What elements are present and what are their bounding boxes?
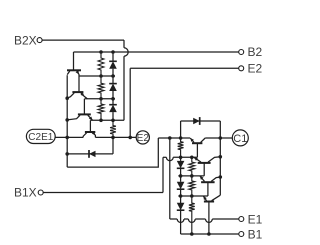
diode D4 [177,157,185,176]
wire C2E1 line [55,136,83,138]
wire E1 rail segment [158,137,190,139]
svg-text:B2X: B2X [14,33,37,47]
svg-text:E2: E2 [248,61,263,75]
wire E1 row a [170,218,177,220]
terminal B1 [239,227,263,241]
wire C1 rail segment [205,137,232,139]
resistor R8 [189,196,195,234]
wire E1 drop [169,138,171,219]
node E2 rail / E2 drop [128,136,132,140]
transistor Q3 [67,114,92,120]
node row1 / R column [99,74,103,78]
terminal E1 [239,212,263,226]
wire FWD line [67,153,113,155]
terminal label B1X [14,186,43,200]
wire hop E1 row over R column [188,219,195,222]
node E1 rail / D column top [179,136,183,140]
diode D2 [109,76,117,99]
node E1 rail / E1 drop [168,136,172,140]
diode D1 [109,52,117,76]
wire E2 drop [129,68,131,137]
node row3 / D column [111,119,115,123]
resistor R4 [110,120,116,137]
wire B1 rail [181,233,239,235]
wire B2X to corner [42,39,124,41]
node FWD line / rail [65,152,69,156]
wire Q8 base [208,202,210,235]
node C1 rail / right rail [219,136,223,140]
svg-text:E1: E1 [248,212,263,226]
wire Q2 base [78,76,80,92]
terminal E2 mid [136,131,149,144]
wire B1X [43,192,163,194]
wire Q1 base [73,52,75,70]
resistor R6 [189,157,195,176]
transistor Q8 [203,195,220,201]
wire B1X riser [162,157,164,192]
node row2b / D column [179,174,183,178]
svg-text:B1X: B1X [14,186,37,200]
resistor R5 [178,138,184,157]
resistor R3 [98,99,104,121]
transistor Q4 [83,131,95,137]
diode D3 [109,99,117,121]
wire B2X vertical upper [123,40,125,48]
transistor Q7 [200,176,221,182]
wire link C2E1 to E1 [67,138,158,167]
terminal C1 [232,130,248,146]
wire E1 row c [195,218,205,220]
transistor Q6 [194,157,220,163]
resistor R7 [189,176,195,196]
terminal E2 top [239,61,263,75]
wire Q4 base [89,120,91,132]
wire FWD2 left leg [180,121,182,138]
wire D6 to B1 rail [180,210,182,234]
node B2 rail / D column [111,50,115,54]
diode D6 upper [180,196,182,203]
diode D5 [177,176,185,196]
node row3b / D column [179,156,183,160]
node Q7 collector on rail [219,175,223,179]
wire hop B2X over B2 rail [124,48,128,56]
node B2 rail / R column [99,50,103,54]
wire row3b right [173,156,197,158]
node Q2 collector on rail [65,96,69,100]
transistor Q5 [190,138,205,143]
wire B2X vertical lower [123,56,125,120]
terminal B2 [239,45,263,59]
wire Q6 base [203,163,205,176]
diode DF1 freewheel [193,117,200,125]
node row3 / R column [99,119,103,123]
node B1 rail / Q8 base [207,232,211,236]
svg-text:C1: C1 [233,133,247,145]
wire row2 [85,98,116,100]
svg-text:E2: E2 [137,133,150,144]
transistor Q2 [67,92,87,99]
diode DF2 freewheel [89,150,96,158]
wire E2 top line [130,67,239,69]
node C2E1 line / rail [65,136,69,140]
node Q3 collector on rail [65,118,69,122]
node row1b / R column [190,194,194,198]
wire collector rail [66,75,68,167]
wire row1 [79,75,115,77]
svg-text:B1: B1 [248,227,263,241]
wire E1 row b [184,218,188,220]
node row2 / D column [111,97,115,101]
wire FWD riser [112,137,114,154]
node B1 rail / R column [190,232,194,236]
wire hop row3b over E1 drop [166,157,173,160]
terminal C2E1 [26,129,55,143]
wire row3b left [163,156,166,158]
resistor R2 [98,76,104,99]
transistor Q1 [67,70,81,76]
node row2b / R column [190,174,194,178]
wire hop E1 row over D column [177,219,184,222]
resistor R1 [98,52,104,76]
wire FWD2 line [181,120,221,122]
wire Q7 base [207,182,209,196]
node row2 / R column [99,97,103,101]
wire B2 rail [74,51,239,53]
wire E2 rail [95,136,136,138]
diode D6 [177,203,185,210]
node row1 / D column [111,74,115,78]
svg-text:C2E1: C2E1 [28,132,53,143]
node row1b / D column [179,194,183,198]
svg-text:B2: B2 [248,45,263,59]
wire E1 row d [212,218,238,220]
wire row3 [90,119,124,121]
wire Q3 base [83,99,85,115]
node Q6 collector on rail [219,155,223,159]
wire right collector rail [219,121,221,195]
node row3b / R column [190,156,194,160]
node E2 rail / R4 [111,136,115,140]
wire hop E1 row over Q8 base [206,219,213,222]
terminal label B2X [14,33,42,47]
wire Q5 base [196,143,198,157]
wire row2b [178,175,204,177]
wire row1b [178,195,208,197]
